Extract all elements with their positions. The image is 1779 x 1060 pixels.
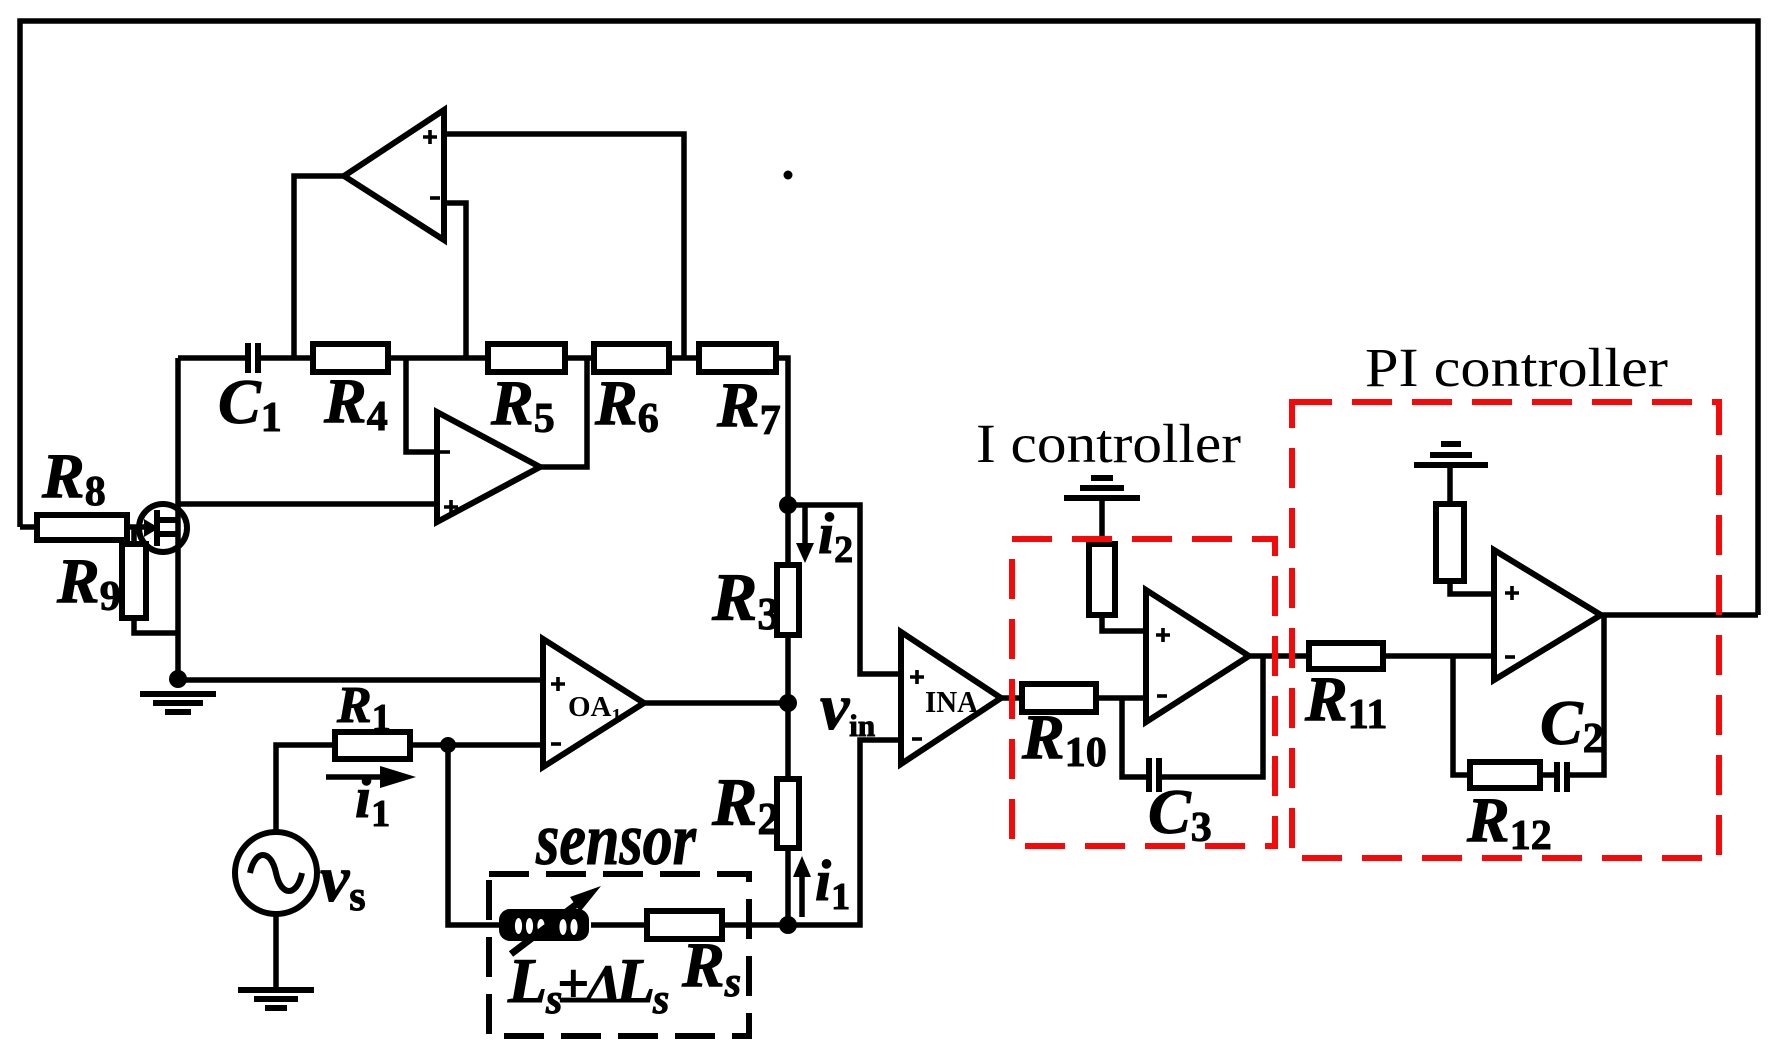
svg-text:L: L — [507, 945, 547, 1016]
svg-text:sensor: sensor — [535, 799, 697, 881]
svg-text:INA: INA — [925, 684, 979, 719]
svg-text:L: L — [615, 945, 655, 1016]
svg-text:s: s — [652, 977, 669, 1023]
svg-text:I controller: I controller — [976, 413, 1241, 474]
svg-text:PI controller: PI controller — [1365, 337, 1668, 398]
svg-text:±: ± — [558, 953, 589, 1015]
